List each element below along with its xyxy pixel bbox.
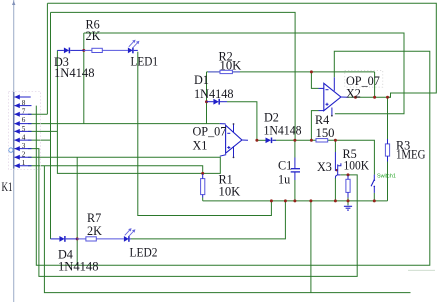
svg-text:D1: D1 — [194, 73, 209, 87]
svg-text:OP_07: OP_07 — [193, 125, 227, 139]
wire pin1 row Q to R1 top junction — [28, 166, 203, 174]
wire R4 right to switch riser — [328, 140, 375, 174]
connector K1 pin 8 arrow — [14, 103, 20, 108]
svg-text:6: 6 — [22, 116, 26, 124]
wire pin7 stub to vertical — [28, 113, 47, 115]
svg-text:1N4148: 1N4148 — [58, 260, 99, 274]
wire D1 cathode east then down to X1 output node — [227, 102, 257, 141]
junction dot at D1 anode node — [205, 100, 208, 103]
junction dot at R2 net riser on X2 output row — [373, 96, 376, 99]
junction dot at X3 gate terminal — [335, 169, 337, 171]
wire R3 bottom to ground bus corner — [387, 156, 389, 201]
svg-text:7: 7 — [22, 108, 26, 116]
wire switch bottom to bus — [373, 193, 375, 201]
svg-text:1: 1 — [22, 159, 26, 167]
svg-text:D2: D2 — [264, 111, 279, 125]
resistor R2 — [208, 70, 240, 73]
resistor R5 — [346, 176, 350, 198]
wire pin6 inverting input row to X1 — [28, 123, 220, 125]
diode D2 — [266, 138, 277, 144]
wire R1 bottom to bus left corner — [202, 198, 204, 201]
junction dot bus / LED1 branch — [270, 199, 273, 202]
wire X3 source down to bus — [334, 178, 336, 201]
wire LED1 cathode down and east to ground bus — [138, 52, 272, 216]
wire X1 output node to D2 — [257, 139, 266, 141]
diode D3 — [57, 48, 83, 54]
wire D3 left end down through pin5 to R1 top row — [57, 50, 202, 173]
connector K1 pin 2 stub — [15, 156, 32, 158]
wire B pin8 down, bottom row A, up right side to X2 V+ supply — [36, 51, 430, 265]
junction dot bus / LED2 branch — [284, 199, 287, 202]
ground symbol — [344, 206, 352, 210]
wire C1 bottom lead to bus — [294, 180, 296, 201]
svg-text:2K: 2K — [86, 29, 101, 43]
wire X3 gate riser from R4 net — [334, 140, 336, 152]
wire L2 from top-left down to D2 node — [51, 12, 296, 140]
wire L2 left drop to pin4 — [50, 12, 52, 239]
resistor R3 — [385, 139, 389, 162]
svg-text:4: 4 — [22, 133, 26, 141]
wire bus branch down to row C — [310, 201, 312, 293]
svg-text:8: 8 — [22, 99, 26, 107]
wire ground bus — [203, 200, 388, 202]
connector K1 pin 3 stub — [15, 148, 32, 150]
svg-text:Switch1: Switch1 — [377, 174, 396, 180]
svg-text:1N4148: 1N4148 — [54, 66, 95, 80]
wire riser D3 junction from wire A down to pin6 row — [83, 33, 85, 124]
junction dot at X2 output / R3 node — [386, 96, 389, 99]
wire X2 noninverting input branch from R4 left node — [311, 111, 318, 141]
connector K1 pin 9 stub (unlabeled) — [15, 96, 31, 98]
diode D4 — [51, 236, 78, 242]
wire riser from D1 anode junction down to inverting row — [206, 102, 208, 124]
wire row C from Q row down and east to right margin — [44, 166, 410, 293]
wire X2 output row — [349, 96, 391, 98]
svg-text:100K: 100K — [344, 159, 370, 173]
connector K1 arrows — [14, 95, 20, 169]
connector K1 pin 5 stub — [15, 130, 32, 132]
connector K1 pin 4 arrow — [14, 138, 20, 143]
wire D2 cathode to R4 — [273, 139, 316, 141]
svg-text:150: 150 — [316, 126, 335, 140]
junction dot bus / R5 bottom — [347, 199, 350, 202]
node circle near pin 2 of K1 — [9, 148, 13, 152]
svg-text:5: 5 — [22, 125, 26, 133]
dashed selection box around K1 — [9, 92, 41, 170]
junction dot bus / C1 bottom — [293, 199, 296, 202]
junction dot at R1 top node — [201, 172, 204, 175]
svg-text:10K: 10K — [220, 59, 242, 73]
wire L1 top border loop to X2 output node — [48, 3, 437, 97]
svg-text:R7: R7 — [87, 211, 101, 225]
connector K1 body line — [13, 0, 15, 302]
mosfet X3 — [335, 152, 341, 178]
wire riser from R2 net down to X2 output row — [374, 72, 376, 97]
connector K1 pin 8 stub — [15, 105, 32, 107]
wire pin4 stub to L2 drop — [28, 139, 51, 141]
connector K1 pin 3 arrow — [14, 146, 20, 151]
junction dot on X2 output row — [354, 96, 357, 99]
op-amp X1 — [220, 123, 248, 158]
svg-text:1u: 1u — [278, 173, 290, 187]
junction dot at X3 gate node — [334, 139, 337, 142]
wire X2 inverting input branch — [311, 72, 318, 89]
junction dot bus / row C branch — [309, 199, 312, 202]
connector K1 pin 1 arrow — [14, 163, 20, 168]
junction dot at R5 top / X3 drain — [347, 173, 350, 176]
svg-text:LED2: LED2 — [130, 246, 158, 260]
svg-text:LED1: LED1 — [131, 55, 159, 69]
svg-text:1N4148: 1N4148 — [194, 87, 234, 101]
svg-text:2K: 2K — [87, 224, 102, 238]
junction dot at D3/R6 node — [82, 49, 85, 52]
svg-text:C1: C1 — [278, 159, 292, 173]
resistor R4 — [316, 139, 328, 142]
wire LED2 cathode east and up to ground bus — [131, 201, 286, 239]
wire pin3 down to bottom row B across to X3 drain riser — [28, 149, 357, 277]
LED LED2 — [124, 228, 136, 242]
resistor R6 — [84, 48, 128, 52]
dashed selection box around X2 label — [345, 71, 383, 88]
connector K1 pin 6 stub — [15, 123, 32, 125]
junction dot at C1 top node — [293, 139, 296, 142]
wire V7 from P row through D4 junction to row A — [76, 157, 78, 265]
junction dot at X2 noninverting branch node — [310, 139, 313, 142]
wire A y=33 from D3 junction to right side, down to X2 output net — [84, 33, 404, 114]
svg-text:X2: X2 — [346, 87, 361, 101]
capacitor C1 — [291, 158, 300, 181]
junction dot bus / switch bottom — [373, 199, 376, 202]
svg-text:1N4148: 1N4148 — [264, 124, 302, 138]
faint wire remnant near right margin — [408, 269, 435, 271]
wire R2 left corner down to D1 anode junction — [206, 72, 208, 102]
wire vertical from L1 through pin7 to D4 anode row — [46, 3, 48, 114]
svg-text:X3: X3 — [317, 160, 332, 174]
wire R5 bottom to bus and ground — [347, 198, 349, 206]
junction dot at X1 output node — [255, 139, 258, 142]
svg-text:R4: R4 — [315, 113, 329, 127]
connector K1 pin 1 stub — [15, 165, 32, 167]
connector K1 pin 5 arrow — [14, 129, 20, 134]
pin numbers — [22, 99, 26, 167]
LED LED1 — [128, 40, 140, 54]
svg-text:X1: X1 — [193, 139, 208, 153]
wire C1 top lead from D2 node — [294, 140, 296, 157]
junction dot at D4/R7 node — [76, 237, 79, 240]
connector K1 pin 6 arrow — [14, 121, 20, 126]
svg-text:10K: 10K — [219, 185, 241, 199]
wire R2 output row y=71.9 to X2 inverting node and beyond — [207, 71, 375, 73]
svg-text:1MEG: 1MEG — [396, 148, 426, 162]
junction dot at X2 inverting branch node — [310, 70, 313, 73]
svg-text:K1: K1 — [2, 180, 13, 194]
svg-text:2: 2 — [22, 151, 26, 159]
connector K1 pin 9 arrow — [14, 95, 20, 100]
switch Switch1 — [371, 175, 375, 193]
wire pin2 row P to X1 noninverting corner then down to R1 top — [28, 157, 220, 173]
op-amp X2 — [319, 77, 349, 116]
connector K1 pin 7 arrow — [14, 112, 20, 117]
resistor R7 — [77, 237, 124, 241]
connector K1 pin 7 stub — [15, 113, 32, 115]
wire pin5 stub — [28, 130, 57, 132]
diode D1 — [207, 99, 228, 105]
wire X2 output node down to R3 top — [387, 97, 389, 139]
connector K1 pin 4 stub — [15, 139, 32, 141]
resistor R1 — [201, 174, 205, 198]
svg-text:3: 3 — [22, 142, 26, 150]
connector K1 pin 2 arrow — [14, 155, 20, 160]
junction dot bus / X3 source — [334, 199, 337, 202]
